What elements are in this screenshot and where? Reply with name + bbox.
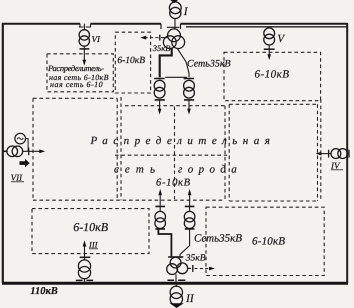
110kV ring: bottom bus line [2, 282, 348, 285]
bus ticks at II [168, 279, 186, 281]
svg-text:6-10кВ: 6-10кВ [117, 56, 145, 66]
svg-text:6-10кВ: 6-10кВ [156, 177, 191, 188]
wire: generator to bus junction [26, 139, 29, 152]
wire: VI lead down with bar [83, 46, 85, 60]
transformer VII (two circles horizontal) [7, 146, 23, 157]
generator G (substation VII) [15, 133, 26, 144]
transformer III [78, 257, 90, 282]
arrows down into city network [159, 100, 161, 109]
dashed inner divider horizontal [115, 154, 227, 156]
dashed box: 6-10kV (bottom left) [32, 209, 149, 254]
wire: 35kV tap to the left with tick [161, 37, 168, 39]
svg-text:6-10кВ: 6-10кВ [255, 69, 290, 81]
feeder arrow at bottom (from substation II) [170, 303, 184, 308]
3-winding transformer (bottom 35kV) [167, 257, 188, 274]
wire: VII output with tick [23, 150, 40, 152]
svg-text:Распределительная: Распределительная [90, 135, 276, 147]
svg-text:ная сеть 6-10: ная сеть 6-10 [50, 80, 103, 89]
transformer VI [79, 30, 89, 46]
arrow into left district box [39, 149, 45, 153]
svg-text:Сеть35кВ: Сеть35кВ [194, 233, 242, 245]
wire: IV output to the left [321, 153, 331, 155]
svg-text:35кВ: 35кВ [185, 253, 206, 263]
110kV ring: top frame line with breaks at VI and I [2, 23, 348, 25]
transformer II [170, 285, 182, 306]
svg-text:6-10кВ: 6-10кВ [73, 220, 109, 234]
bus break ticks at I [161, 24, 181, 29]
transformer (left 35/10kV, top pair) [154, 80, 165, 98]
svg-text:110кВ: 110кВ [30, 286, 58, 297]
arrow into bottom right 6-10kV box [209, 267, 215, 271]
bus ticks at III [76, 279, 93, 281]
wire: tap right with tick [188, 267, 191, 269]
bottom bars under top pair [155, 99, 195, 101]
svg-text:сеть: сеть [114, 163, 161, 175]
wire: corner drop to transformer V [268, 27, 270, 29]
transformer (right 35/10kV, bottom pair) [184, 206, 195, 228]
dashed box: Raspredelitel (top left) [47, 54, 113, 92]
svg-text:VI: VI [92, 34, 101, 44]
110kV ring: left frame line [2, 23, 4, 283]
svg-text:VII: VII [11, 172, 23, 182]
tilde inside generator [17, 138, 23, 140]
wire: transformer I lead down to 35kV transformer [174, 18, 176, 29]
bus break ticks at VI [79, 24, 91, 28]
dashed box: 6-10kV (top, tall narrow) [115, 32, 150, 93]
wire: 35kV line to right transformer [177, 48, 189, 78]
dashed line: bottom of left district and city cells [33, 199, 225, 201]
dashed extra vertical at right column [320, 99, 322, 201]
bar above transformer III [80, 256, 91, 258]
wire: V lead down with bar [268, 45, 270, 55]
node bar above bottom 3-winding transformer [168, 256, 183, 258]
dashed box: left district [33, 98, 117, 200]
wire: right 35kV line down [180, 229, 190, 257]
wire: thick 35kV line to left transformer [160, 48, 172, 78]
arrow up into bottom left box (III feed) [84, 247, 86, 258]
arrow into top right 6-10kV box [267, 54, 271, 60]
dashed box: city network right column [229, 104, 317, 201]
svg-text:III: III [88, 240, 99, 250]
top bars of lower pair [155, 205, 194, 207]
svg-text:35кВ: 35кВ [152, 43, 171, 53]
svg-text:IV: IV [330, 160, 341, 170]
feeder arrow at top (into substation I) [170, 0, 178, 3]
arrow into Raspredelitel box [83, 60, 87, 66]
arrow into city network from IV [316, 152, 322, 156]
second 110kV circuit parallel line (right section) [186, 23, 347, 27]
node bars above transformers [154, 78, 194, 80]
wire: lead down to transformer VI [83, 24, 85, 30]
svg-text:города: города [178, 163, 242, 175]
dashed box: 6-10kV (top right) [224, 52, 321, 100]
dashed box: city network left column [121, 97, 225, 201]
transformer (right 35/10kV, top pair) [184, 80, 195, 98]
transformer (left 35/10kV, bottom pair) [155, 206, 166, 228]
wire: frame stub to transformer VII [3, 150, 7, 152]
svg-text:Распределитель-: Распределитель- [47, 63, 104, 73]
transformer V [264, 28, 275, 45]
transformer IV [331, 149, 348, 159]
thick feeder arrow at VII [20, 159, 30, 167]
arrows up from lower pair into city network [159, 195, 161, 205]
wire: left 35kV line down to 3-winding transformer [158, 229, 171, 257]
svg-text:6-10кВ: 6-10кВ [252, 236, 285, 248]
svg-text:II: II [185, 293, 195, 305]
wire: lead down to bottom bus [175, 274, 177, 282]
dashed inner divider vertical [174, 107, 176, 200]
dashed box: 6-10kV (bottom right) [206, 207, 324, 275]
bottom bars of lower pair [155, 228, 194, 230]
arrow into 6-10kV box (35kV feed) [140, 36, 146, 40]
110kV ring: right frame line [346, 23, 348, 283]
wire: 35kV tie between transformers [165, 76, 187, 78]
transformer I [169, 2, 181, 19]
ticks flanking IV [329, 150, 349, 158]
3-winding transformer (top 110/35kV) [163, 29, 184, 49]
